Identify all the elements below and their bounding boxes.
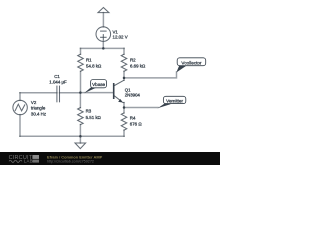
net flag Vcollector bbox=[176, 58, 205, 73]
net flag Vbase bbox=[84, 80, 107, 94]
wire collector to Vcollector flag bbox=[124, 72, 177, 78]
node rail junction bbox=[102, 47, 105, 50]
label R3 values bbox=[86, 109, 102, 120]
svg-text:30.4 Hz: 30.4 Hz bbox=[31, 111, 46, 116]
label C1 values bbox=[49, 74, 67, 85]
svg-text:Vcollector: Vcollector bbox=[181, 60, 202, 65]
resistor R3 bbox=[78, 93, 84, 137]
wire V1 to rail bbox=[102, 41, 104, 48]
svg-text:676 Ω: 676 Ω bbox=[130, 121, 143, 126]
label V2 values bbox=[31, 100, 46, 117]
svg-text:V2: V2 bbox=[31, 100, 37, 105]
svg-text:R1: R1 bbox=[86, 58, 92, 63]
svg-text:R2: R2 bbox=[130, 58, 136, 63]
net flag Vemitter bbox=[158, 96, 186, 108]
wire base bbox=[80, 92, 113, 94]
node collector junction bbox=[123, 77, 126, 80]
wire top rail bbox=[81, 47, 125, 49]
ground bbox=[75, 136, 86, 148]
resistor R4 bbox=[121, 108, 127, 137]
svg-text:Vemitter: Vemitter bbox=[166, 98, 183, 103]
label Q1 values bbox=[125, 88, 141, 98]
transistor Q1 bbox=[114, 78, 124, 108]
svg-text:54.8 kΩ: 54.8 kΩ bbox=[86, 64, 102, 69]
svg-text:6.69 kΩ: 6.69 kΩ bbox=[130, 64, 146, 69]
svg-text:2N3904: 2N3904 bbox=[125, 93, 141, 98]
svg-text:12.02 V: 12.02 V bbox=[113, 35, 128, 40]
label R2 values bbox=[130, 58, 146, 69]
node emitter junction bbox=[123, 106, 126, 109]
svg-text:5.51 kΩ: 5.51 kΩ bbox=[86, 115, 102, 120]
capacitor C1 bbox=[20, 86, 80, 102]
svg-text:R4: R4 bbox=[130, 116, 136, 121]
node Vbase junction bbox=[79, 91, 82, 94]
voltage source V1 bbox=[96, 27, 111, 42]
power flag (supply arrow) bbox=[98, 8, 109, 27]
svg-text:LAB: LAB bbox=[24, 159, 33, 164]
svg-text:triangle: triangle bbox=[31, 105, 46, 110]
svg-text:http://circuitlab.com/c759272: http://circuitlab.com/c759272 bbox=[47, 159, 94, 163]
svg-text:R3: R3 bbox=[86, 109, 92, 114]
svg-text:Vbase: Vbase bbox=[92, 82, 105, 87]
label R4 values bbox=[130, 116, 143, 127]
label R1 values bbox=[86, 58, 102, 69]
resistor R2 bbox=[121, 48, 127, 78]
resistor R1 bbox=[78, 48, 84, 92]
wire bottom rail bbox=[20, 135, 124, 137]
node ground junction bbox=[79, 135, 82, 138]
svg-text:1.044 µF: 1.044 µF bbox=[49, 79, 67, 84]
label V1 values bbox=[113, 29, 128, 39]
watermark bar bbox=[0, 152, 220, 165]
voltage source V2 bbox=[13, 93, 27, 136]
wire emitter to Vemitter flag bbox=[124, 107, 158, 109]
svg-text:C1: C1 bbox=[54, 74, 60, 79]
